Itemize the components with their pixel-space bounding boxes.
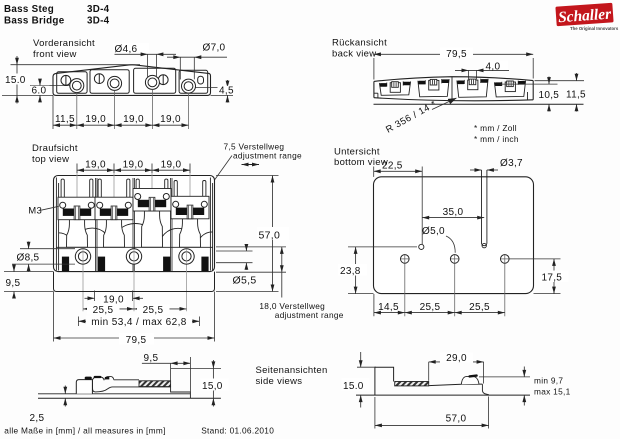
svg-text:19,0: 19,0 bbox=[85, 159, 106, 170]
svg-text:19,0: 19,0 bbox=[123, 159, 144, 170]
left side view plate step curve bbox=[92, 380, 170, 392]
left side view saddle rail top bbox=[114, 379, 139, 381]
svg-text:29,0: 29,0 bbox=[446, 353, 467, 364]
dimension 23.8 bbox=[348, 246, 417, 248]
svg-text:11,5: 11,5 bbox=[55, 114, 75, 125]
svg-text:25,5: 25,5 bbox=[93, 305, 114, 316]
svg-text:19,0: 19,0 bbox=[160, 114, 181, 125]
dimension 79.5 top view bbox=[53, 292, 55, 342]
height screw 3 slotted bbox=[158, 75, 168, 85]
dimension diameter 7.0 bbox=[179, 57, 181, 79]
right side view base line bbox=[356, 394, 530, 396]
dimension 11.5 bbox=[535, 80, 585, 82]
dimension diameter 3.7 slot bbox=[481, 170, 483, 243]
intonation screw rod left view bbox=[139, 381, 171, 387]
string hole circle 3 bbox=[145, 75, 159, 89]
mounting screw centre lines bbox=[82, 249, 84, 311]
dimension 17.5 bbox=[510, 258, 561, 260]
base reference line back view bbox=[374, 103, 584, 105]
min 9.7 reference line bbox=[479, 376, 530, 378]
dimension 6.0 left bbox=[39, 79, 41, 86]
left side view base line bbox=[38, 397, 221, 399]
svg-text:Bass Steg: Bass Steg bbox=[4, 4, 54, 15]
left side view mounting lip bbox=[76, 380, 92, 394]
top view body outline bbox=[54, 176, 215, 272]
svg-text:79,5: 79,5 bbox=[446, 49, 467, 60]
dimension 25.5 25.5 bbox=[83, 308, 187, 310]
svg-text:19,0: 19,0 bbox=[123, 114, 144, 125]
svg-text:M3: M3 bbox=[28, 206, 42, 217]
dimension min 9.7 max 15.1 bbox=[523, 367, 525, 377]
svg-text:adjustment range: adjustment range bbox=[275, 310, 344, 320]
back saddle 3 bbox=[457, 79, 488, 98]
svg-text:11,5: 11,5 bbox=[566, 90, 586, 101]
svg-text:57,0: 57,0 bbox=[446, 414, 467, 425]
svg-text:Draufsicht: Draufsicht bbox=[32, 143, 78, 154]
intonation screw rod right view bbox=[395, 382, 429, 386]
top saddle 2 bbox=[95, 179, 133, 247]
left side view saddle bumps bbox=[92, 377, 104, 380]
svg-text:Ø3,7: Ø3,7 bbox=[500, 158, 523, 169]
left side view plate underside bbox=[38, 393, 190, 395]
svg-text:side views: side views bbox=[256, 376, 303, 387]
svg-text:Rückansicht: Rückansicht bbox=[332, 38, 387, 49]
svg-text:The Original Innovators: The Original Innovators bbox=[570, 26, 619, 31]
saddle window 4 bbox=[179, 70, 208, 93]
svg-text:* mm / inch: * mm / inch bbox=[474, 134, 519, 144]
dimension 35.0 bbox=[422, 217, 484, 219]
string hole circle 2 bbox=[108, 76, 122, 90]
svg-text:* mm / Zoll: * mm / Zoll bbox=[474, 123, 517, 133]
svg-text:19,0: 19,0 bbox=[161, 159, 182, 170]
svg-text:Ø8,5: Ø8,5 bbox=[17, 253, 40, 264]
string anchor slot 3 bbox=[163, 257, 170, 272]
svg-text:6.0: 6.0 bbox=[32, 86, 47, 97]
back saddle 1 bbox=[379, 81, 410, 95]
lock insert window 4 bbox=[198, 76, 204, 84]
svg-text:Bass Bridge: Bass Bridge bbox=[4, 16, 65, 27]
left side view rear step bbox=[171, 387, 191, 399]
svg-text:14,5: 14,5 bbox=[378, 302, 399, 313]
right side view rear end bbox=[482, 384, 488, 395]
dimension 4.5 right bbox=[211, 94, 234, 96]
svg-text:19,0: 19,0 bbox=[85, 114, 106, 125]
right side view body block bbox=[375, 367, 394, 395]
dimension 10.5 bbox=[500, 83, 558, 85]
svg-text:25,5: 25,5 bbox=[420, 302, 441, 313]
back saddle 2 bbox=[418, 79, 449, 97]
dimension 9.5 left bbox=[4, 271, 54, 273]
guide rails bbox=[95, 178, 97, 271]
dimension diameter 8.5 bbox=[20, 248, 75, 250]
top view inner walls bbox=[55, 178, 57, 271]
wood screw hole 2 bbox=[450, 255, 459, 264]
bottom view body outline bbox=[374, 177, 534, 294]
svg-text:23,8: 23,8 bbox=[340, 266, 361, 277]
svg-text:15.0: 15.0 bbox=[5, 75, 26, 86]
svg-text:9,5: 9,5 bbox=[144, 353, 159, 364]
svg-text:3D-4: 3D-4 bbox=[87, 16, 110, 27]
string hole circle 1 bbox=[70, 79, 84, 93]
pilot hole bbox=[419, 244, 424, 249]
svg-text:22,5: 22,5 bbox=[382, 161, 403, 172]
svg-text:4,0: 4,0 bbox=[486, 61, 501, 72]
svg-text:35,0: 35,0 bbox=[443, 207, 464, 218]
svg-text:Stand: 01.06.2010: Stand: 01.06.2010 bbox=[201, 426, 274, 436]
dimension 19.0 bottom of top view bbox=[94, 291, 96, 302]
saddle centre lines bbox=[76, 173, 78, 247]
top saddle 1 bbox=[58, 179, 96, 247]
extension line 4.5 right bbox=[195, 87, 233, 89]
right side view saddle bump bbox=[461, 376, 479, 384]
svg-text:top view: top view bbox=[32, 154, 69, 165]
back saddle 4 bbox=[494, 81, 525, 97]
wood screw hole 1 bbox=[401, 255, 410, 264]
svg-text:max 15,1: max 15,1 bbox=[534, 387, 571, 397]
svg-text:adjustment range: adjustment range bbox=[233, 151, 302, 161]
dimension chain 14.5 25.5 25.5 bottom view bbox=[373, 294, 375, 316]
svg-text:back view: back view bbox=[332, 49, 376, 60]
svg-text:79,5: 79,5 bbox=[126, 335, 147, 346]
arch cutouts bbox=[59, 224, 213, 248]
svg-text:10,5: 10,5 bbox=[539, 90, 560, 101]
dimension 15.0 left side view bbox=[171, 367, 221, 369]
dimension chain 11.5 19.0 19.0 19.0 bbox=[53, 124, 189, 126]
top saddle 4 bbox=[171, 181, 209, 248]
dimension 4.0 back view bbox=[468, 70, 470, 83]
svg-text:Seitenansichten: Seitenansichten bbox=[256, 365, 328, 376]
dimension 57.0 right bbox=[216, 175, 279, 177]
dimension 2.5 bbox=[64, 386, 66, 394]
svg-text:15.0: 15.0 bbox=[343, 381, 364, 392]
dimension 79.5 back view bbox=[373, 58, 375, 80]
svg-text:25,5: 25,5 bbox=[143, 305, 164, 316]
leader to saddle 4 bbox=[200, 156, 233, 202]
dimension 22.5 bbox=[373, 167, 375, 177]
saddle window 2 bbox=[90, 70, 129, 94]
svg-text:front view: front view bbox=[33, 49, 77, 60]
string hole circle 4 bbox=[182, 79, 196, 93]
dimension min 53.4 max 62.8 bbox=[77, 317, 79, 327]
top saddle 3 bbox=[133, 179, 171, 247]
svg-text:bottom view: bottom view bbox=[334, 157, 388, 168]
height screw 1 slotted bbox=[61, 75, 71, 85]
Schaller logo bbox=[555, 3, 613, 27]
anchor strip top line bbox=[56, 246, 212, 248]
dimension 15.0 right side view bbox=[357, 366, 376, 368]
svg-text:min 9,7: min 9,7 bbox=[534, 376, 563, 386]
dimension 57.0 side view bbox=[374, 397, 376, 429]
front bottom extension lines bbox=[52, 95, 54, 129]
string anchor slot 2 bbox=[98, 257, 105, 272]
string anchor slot 1 bbox=[62, 257, 69, 272]
mounting screw circle 1 bbox=[75, 249, 90, 264]
mounting screw circle 2 bbox=[126, 249, 141, 264]
svg-text:alle Maße in [mm] / all measur: alle Maße in [mm] / all measures in [mm] bbox=[4, 425, 165, 435]
wood screw hole 3 bbox=[501, 255, 510, 264]
svg-text:min 53,4 / max 62,8: min 53,4 / max 62,8 bbox=[91, 317, 186, 328]
svg-text:4,5: 4,5 bbox=[219, 85, 234, 96]
dimension 15.0 left bbox=[11, 64, 141, 66]
dimension diameter 5.5 right bbox=[216, 250, 253, 252]
svg-text:2,5: 2,5 bbox=[30, 413, 45, 424]
dimension 9.5 side view bbox=[170, 363, 172, 381]
svg-text:15,0: 15,0 bbox=[202, 381, 223, 392]
svg-text:19,0: 19,0 bbox=[103, 295, 124, 306]
svg-text:Ø5,0: Ø5,0 bbox=[422, 226, 445, 237]
extension line 6.0 through string circles bbox=[30, 85, 70, 87]
svg-text:Ø4,6: Ø4,6 bbox=[115, 44, 138, 55]
svg-text:Ø5,5: Ø5,5 bbox=[233, 275, 257, 287]
svg-text:57,0: 57,0 bbox=[259, 230, 281, 242]
dimension 29.0 bbox=[428, 362, 430, 381]
right side view plate top bbox=[429, 384, 483, 386]
mounting screw circle 3 bbox=[179, 249, 194, 264]
svg-text:Vorderansicht: Vorderansicht bbox=[33, 38, 95, 49]
dimension 18.0 adjustment range bbox=[216, 246, 286, 248]
svg-text:3D-4: 3D-4 bbox=[87, 4, 110, 15]
travel strip outline bbox=[54, 272, 215, 292]
height screw 2 slotted bbox=[94, 74, 104, 84]
svg-text:25,5: 25,5 bbox=[469, 302, 490, 313]
back view centre joint bbox=[451, 77, 453, 102]
svg-text:Ø7,0: Ø7,0 bbox=[203, 43, 226, 54]
front view body outline bbox=[53, 65, 211, 96]
string anchor slot 4 bbox=[201, 257, 208, 272]
svg-text:9,5: 9,5 bbox=[6, 278, 21, 289]
back view base plate outline bbox=[374, 77, 533, 82]
saddle window 3 bbox=[134, 68, 176, 93]
dimension diameter 4.6 bbox=[147, 54, 149, 78]
top dimension chain 19.0 x3 bbox=[76, 164, 78, 174]
back view right step bbox=[527, 92, 529, 100]
saddle window 1 bbox=[57, 72, 87, 94]
svg-text:17,5: 17,5 bbox=[542, 272, 563, 283]
